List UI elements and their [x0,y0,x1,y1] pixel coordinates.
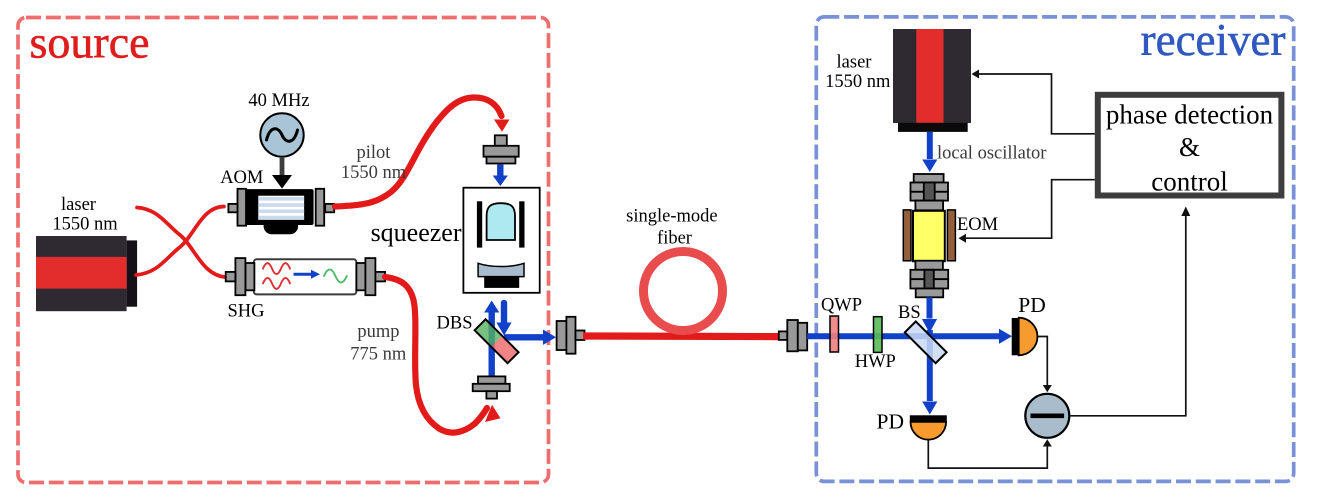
squeezer crystal [487,203,515,240]
EOM output coupler [910,261,948,298]
phase detection and control box [1098,95,1282,196]
DBS dichroic beamsplitter [475,319,519,363]
photodiode PD bottom [910,415,947,439]
fiber splitter X strand (free end to SHG) [137,208,225,278]
pilot fiber AOM to squeezer coupler [335,97,502,206]
SHG red wave glyph upper [263,263,290,274]
HWP waveplate [874,317,883,353]
beam arrow squeezed light down to DBS [501,303,507,323]
wire phase box to EOM [964,180,1095,239]
fiber coupler at fiber input (left) [557,317,585,354]
laser L2 (receiver) body [893,29,971,132]
svg-text:pilot: pilot [357,143,392,163]
SHG green wave glyph [324,269,347,282]
svg-text:BS: BS [898,303,921,323]
svg-text:single-mode: single-mode [626,207,717,227]
svg-text:40 MHz: 40 MHz [248,91,309,111]
svg-text:775 nm: 775 nm [350,345,407,365]
squeezer cavity box [463,188,539,293]
svg-text:laser: laser [837,52,872,72]
fiber coupler above squeezer [484,135,519,163]
QWP waveplate [830,316,839,352]
wire PD right to subtractor [1038,337,1048,388]
SHG conversion arrow [294,273,312,276]
local oscillator beam arrow laser to EOM coupler [927,132,933,159]
squeezer mirror mount [484,277,519,288]
svg-text:fiber: fiber [657,228,692,248]
BS 50:50 beamsplitter [905,321,947,363]
svg-text:DBS: DBS [437,313,473,333]
fiber splitter X strand (laser to AOM) [136,207,224,276]
subtractor minus sign [1031,414,1065,419]
source enclosure dashed box [18,18,549,483]
svg-text:PD: PD [1018,293,1045,317]
RF drive arrow oscillator to AOM [272,157,292,189]
beam arrow pump up into squeezer (from lower coupler through DBS) [489,312,495,376]
svg-text:laser: laser [61,195,96,215]
beam arrow coupler into squeezer [497,165,503,177]
svg-text:receiver: receiver [1141,15,1286,65]
SHG red wave glyph lower [263,278,290,289]
laser L1 (source) body [36,236,137,311]
subtractor circle [1025,394,1069,438]
AOM body [228,189,334,234]
single-mode fiber coil [644,252,723,331]
svg-text:PD: PD [877,409,904,433]
LO beam BS to bottom PD [927,330,933,401]
LO beam arrow EOM to BS [927,297,933,318]
wire subtractor to phase box [1071,214,1186,416]
fiber coupler below DBS [473,376,510,398]
svg-text:QWP: QWP [821,295,862,315]
oscillator sine glyph [267,129,298,141]
svg-text:source: source [30,17,150,68]
svg-text:HWP: HWP [855,352,896,372]
svg-text:local oscillator: local oscillator [937,143,1046,163]
svg-text:&: & [1179,132,1200,162]
squeezer curved mirror [478,263,524,276]
receiver enclosure dashed box [816,17,1293,482]
squeezer left electrode bar [477,201,482,247]
single-mode fiber straight run [583,332,780,340]
svg-text:control: control [1151,166,1227,196]
svg-text:1550 nm: 1550 nm [825,72,891,92]
wire phase box to laser L2 [977,74,1095,134]
svg-text:AOM: AOM [220,168,263,188]
pump fiber SHG to DBS coupler [385,277,487,433]
pilot fiber arrowhead [494,120,510,132]
oscillator 40 MHz circle [260,113,303,156]
EOM input coupler [911,174,949,210]
SHG body [226,258,385,295]
svg-text:squeezer: squeezer [371,218,462,247]
EOM crystal [903,210,955,261]
svg-text:phase detection: phase detection [1106,100,1274,130]
signal beam from output coupler through QWP HWP to BS and PD [807,333,999,339]
svg-text:1550 nm: 1550 nm [341,163,407,183]
fiber coupler at fiber output (right) [779,320,807,351]
wire PD bottom to subtractor [928,440,1047,468]
beam arrow DBS to fiber coupler [504,334,543,340]
svg-text:SHG: SHG [228,302,265,322]
photodiode PD right [1012,318,1038,356]
pump fiber arrowhead [485,405,501,422]
svg-text:EOM: EOM [957,215,998,235]
svg-text:1550 nm: 1550 nm [52,215,118,235]
svg-text:pump: pump [357,322,399,342]
squeezer right electrode bar [519,201,524,247]
